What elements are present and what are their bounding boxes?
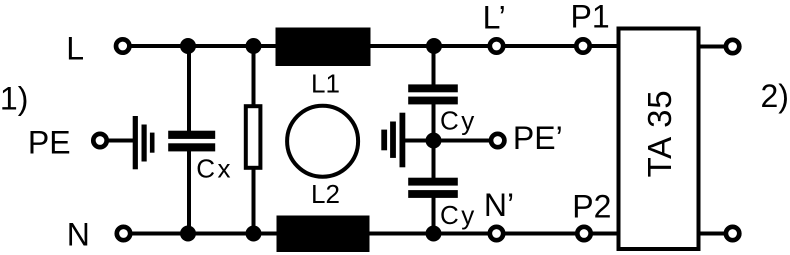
capacitor Cy upper: top plate [408,84,458,92]
wire Cy vertical lower segment [432,198,436,236]
svg-text:N: N [67,216,90,252]
svg-text:P1: P1 [571,0,610,35]
wire Cy vertical middle segment [432,104,436,178]
svg-text:Cy: Cy [440,200,477,230]
svg-text:L: L [66,31,84,67]
terminal L' (open circle) [490,39,503,52]
resistor R (discharge resistor) [246,106,261,168]
node junction top rail at Cx [180,38,196,54]
wire ground symbol to Cy midpoint [403,139,434,143]
wire resistor vertical upper segment [252,44,256,106]
node junction top rail at Cy [426,38,442,54]
inductor L1 winding (black bar) [276,28,371,67]
capacitor Cx bottom plate [168,143,215,151]
capacitor Cy lower: bottom plate [408,190,458,198]
terminal P2 (open circle) [577,227,590,240]
svg-text:N’: N’ [484,187,514,223]
inductor L2 winding (black bar) [277,216,370,253]
transformer / device TA 35 box [619,29,699,250]
terminal PE (open circle) [93,134,106,147]
node junction bottom rail at Cy [426,226,442,242]
node junction top rail at resistor [246,38,262,54]
ground symbol at Cy midpoint (bars short to tall, left to right) [381,113,405,168]
wire Cx vertical upper segment [187,44,191,131]
wire Cx vertical lower segment [187,151,191,235]
common-mode choke core (toroid circle) [287,106,358,177]
svg-text:L’: L’ [483,0,506,36]
node junction Cy midpoint / PE' [426,133,442,149]
wire Cy vertical upper segment [432,44,436,85]
svg-text:Cy: Cy [440,105,477,135]
terminal output right bottom (open circle) [726,227,739,240]
terminal output right top (open circle) [726,40,739,53]
svg-text:Cx: Cx [196,153,233,183]
svg-text:L1: L1 [311,69,340,99]
wire TA35 to right top terminal [699,45,726,49]
svg-text:PE’: PE’ [513,120,563,156]
terminal PE' (open circle) [491,134,504,147]
wire top rail (L to TA35 box) [123,44,618,48]
svg-text:L2: L2 [311,179,340,209]
node junction bottom rail at resistor [246,226,262,242]
svg-text:1): 1) [0,81,28,117]
terminal N (open circle) [117,227,130,240]
wire PE terminal to ground symbol [106,139,135,143]
terminal L (open circle) [116,39,129,52]
ground symbol at PE (bars tall to short, left to right) [133,116,155,169]
capacitor Cy upper: bottom plate [408,97,458,105]
terminal N' (open circle) [490,227,503,240]
terminal P1 (open circle) [576,39,589,52]
capacitor Cy lower: top plate [408,178,458,186]
svg-text:P2: P2 [572,188,611,224]
wire bottom rail (N to TA35 box) [123,232,618,236]
node junction bottom rail at Cx [180,226,196,242]
wire resistor vertical lower segment [252,168,256,235]
capacitor Cx top plate [168,131,215,139]
svg-text:2): 2) [761,78,789,114]
svg-text:PE: PE [28,125,71,161]
wire Cy midpoint to PE' terminal [434,139,493,143]
wire TA35 to right bottom terminal [699,232,726,236]
svg-text:TA 35: TA 35 [641,90,678,178]
